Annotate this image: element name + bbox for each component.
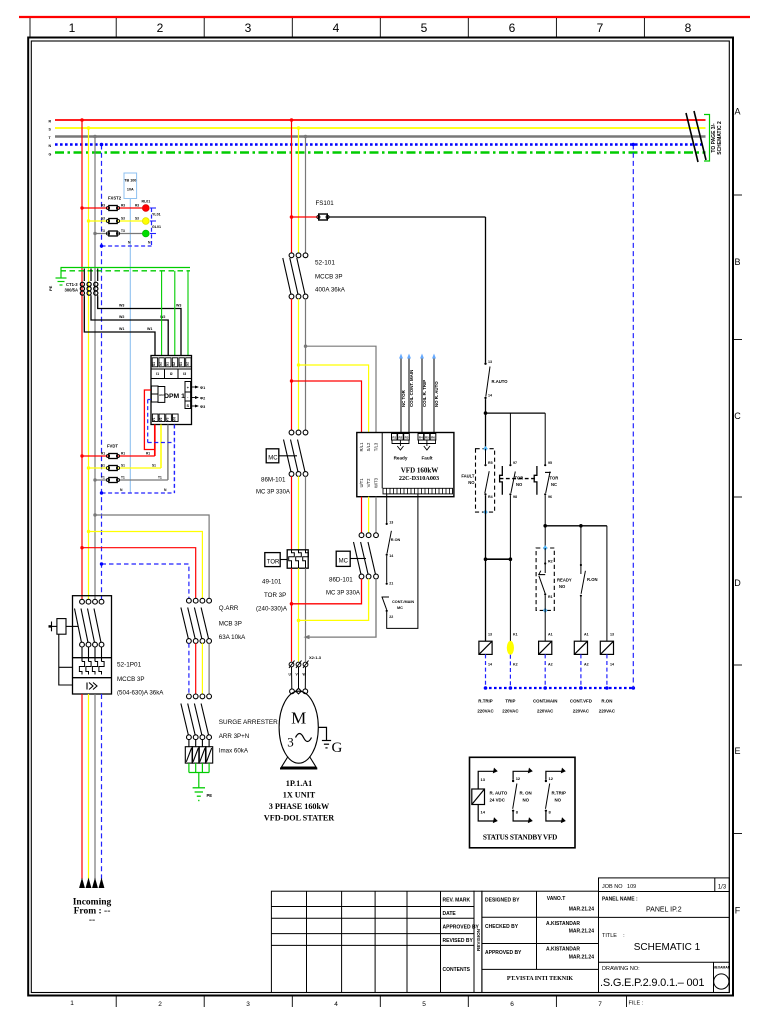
svg-text:Φ2: Φ2	[200, 397, 205, 401]
svg-text:2: 2	[157, 21, 164, 35]
svg-text:A.KISTANDAR: A.KISTANDAR	[546, 947, 580, 953]
svg-text:READY: READY	[557, 578, 572, 583]
contact TOR NO	[509, 413, 511, 464]
arrow W joins T phase	[304, 635, 310, 639]
coil R.ON	[600, 641, 613, 654]
contactor 86M-101 pole R	[284, 430, 294, 476]
svg-text:MC: MC	[268, 456, 278, 462]
svg-text:1P.1.A1: 1P.1.A1	[286, 779, 313, 788]
svg-text:S: S	[187, 404, 190, 408]
wire stub NO R. AUTO	[433, 357, 435, 434]
svg-text:S3: S3	[121, 217, 125, 221]
svg-text:R1: R1	[101, 452, 105, 456]
svg-text:R. ON: R. ON	[520, 791, 532, 796]
svg-text:R3: R3	[405, 436, 409, 440]
wire N to DPM VN (dashed blue)	[102, 400, 175, 494]
motor operator 52-1P01	[49, 619, 79, 685]
svg-text:S3: S3	[101, 217, 105, 221]
svg-text:CONT./MAIN: CONT./MAIN	[392, 600, 414, 604]
wire VFD output W (grey)	[375, 497, 377, 533]
svg-text:R.TRIP: R.TRIP	[478, 699, 492, 704]
svg-text:5: 5	[422, 1001, 426, 1008]
overload relay 49-101 body	[287, 550, 308, 568]
contactor 86D-101 pole U	[354, 533, 364, 579]
svg-text:13: 13	[488, 360, 492, 364]
wire T feeder-2 vertical	[305, 137, 307, 254]
svg-text:S2: S2	[172, 362, 176, 366]
wire W1 CT1 secondary	[84, 297, 155, 356]
svg-text:TOR: TOR	[550, 476, 559, 481]
svg-text:DRAWING NO:: DRAWING NO:	[602, 966, 640, 972]
svg-text:MC: MC	[397, 606, 403, 610]
wire W3 CT3 secondary	[98, 297, 181, 356]
wire R tee to VFD input R/L1	[292, 381, 362, 433]
svg-text:14: 14	[610, 663, 614, 667]
wire R tap to control fuse FS101	[292, 216, 319, 218]
svg-text:R2: R2	[548, 560, 553, 564]
svg-text:S1: S1	[101, 464, 105, 468]
svg-text:V3: V3	[166, 417, 170, 421]
svg-text:S2: S2	[186, 362, 190, 366]
CT2 current transformer	[87, 269, 91, 298]
bus R (red phase bus)	[55, 119, 706, 121]
wire R feeder-2 vertical (bus R to 52-101)	[291, 120, 293, 253]
wire N tee to Q.ARR (dashed blue)	[102, 564, 189, 599]
svg-text:220VAC: 220VAC	[502, 709, 519, 714]
svg-text:MAR.21.24: MAR.21.24	[569, 955, 595, 961]
svg-text:98: 98	[513, 495, 517, 499]
wire R tap to fuse FXST2-R	[82, 207, 142, 209]
svg-text:S2: S2	[159, 362, 163, 366]
bus G (green dash-dot ground bus)	[55, 151, 706, 154]
svg-text:W/T3: W/T3	[373, 477, 378, 488]
terminal block TB 100 10A	[124, 173, 137, 199]
junctions N rail	[484, 686, 488, 690]
CT3 current transformer	[94, 269, 98, 298]
svg-text:R.ON: R.ON	[601, 699, 612, 704]
wire T tee to VFD input T/L3	[306, 346, 377, 432]
wire TOR NC to header2	[544, 495, 546, 548]
wire FS101 to control circuit	[328, 216, 486, 218]
svg-text:NC: NC	[551, 482, 557, 487]
power meter DPM 1	[151, 356, 192, 425]
svg-text:AUX: AUX	[159, 393, 165, 397]
svg-text:T1: T1	[121, 476, 125, 480]
svg-text:B: B	[734, 257, 740, 267]
wire arrester earth bus (green)	[189, 763, 209, 787]
svg-text:6: 6	[509, 21, 516, 35]
svg-text:NO R. AUTO: NO R. AUTO	[434, 381, 439, 407]
wire PE to CT S2 terminals (green)	[162, 271, 188, 356]
svg-text:V1: V1	[152, 417, 156, 421]
svg-text:.S.G.E.P.2.9.0.1.– 001: .S.G.E.P.2.9.0.1.– 001	[600, 977, 704, 989]
switch surge arrester pole S	[194, 694, 204, 740]
mechanical link TOR (dashed)	[500, 478, 536, 480]
svg-text:86D-101: 86D-101	[329, 577, 353, 584]
wire S 49-101 to motor terminal	[298, 568, 300, 661]
contact READY NO (dashed box)	[536, 548, 554, 610]
svg-text:12: 12	[516, 776, 521, 781]
svg-text:FAULT: FAULT	[461, 474, 475, 479]
svg-text:S3: S3	[135, 217, 139, 221]
arrester element 4	[206, 739, 213, 763]
breaker Q.ARR pole R	[188, 598, 198, 643]
right info block	[599, 878, 730, 993]
motor M 3~	[279, 688, 318, 763]
breaker Q.ARR pole S	[194, 598, 204, 643]
svg-text:T3: T3	[101, 229, 105, 233]
svg-text:W1: W1	[147, 327, 152, 331]
svg-text:PT.VISTA INTI TEKNIK: PT.VISTA INTI TEKNIK	[507, 976, 574, 982]
wire TOR NO to rail1	[509, 495, 511, 641]
ground arrester PE	[193, 788, 205, 801]
signature table	[482, 891, 599, 992]
svg-text:W2: W2	[160, 315, 165, 319]
svg-text:R1: R1	[392, 436, 396, 440]
wire S tee to VFD input S/L2	[299, 365, 369, 433]
svg-text:R3: R3	[135, 204, 139, 208]
breaker 52-101 pole R	[283, 253, 294, 299]
breaker 52-1P01 trip units	[79, 662, 104, 675]
PE sub-bus (green)	[61, 267, 191, 269]
svg-text:PANEL NAME :: PANEL NAME :	[602, 897, 638, 903]
svg-text:REVISION: REVISION	[476, 928, 481, 951]
svg-text:T/L3: T/L3	[373, 442, 378, 451]
wire T 49-101 to motor terminal	[305, 568, 307, 661]
wire Q.ARR to surge arrester R	[195, 643, 197, 694]
svg-text:1: 1	[70, 1000, 74, 1007]
svg-text:63A 10kA: 63A 10kA	[219, 634, 246, 641]
pilot lamp RL01 (red)	[142, 205, 149, 212]
svg-text:D: D	[734, 578, 741, 588]
svg-text:13: 13	[610, 633, 614, 637]
svg-text:A.KISTANDAR: A.KISTANDAR	[546, 921, 580, 927]
svg-text:SURGE ARRESTER: SURGE ARRESTER	[219, 719, 278, 726]
svg-text:E: E	[734, 746, 740, 756]
DPM comm port boxes	[185, 382, 191, 409]
svg-text:W2: W2	[119, 315, 124, 319]
label motor description	[264, 779, 335, 823]
svg-text:FVDT: FVDT	[107, 444, 118, 449]
wire 86D U to R phase	[292, 579, 362, 604]
svg-text:R3: R3	[121, 204, 125, 208]
wire stub COIL R. TRIP	[421, 357, 423, 434]
coil captions	[477, 699, 615, 714]
contact R.TRIP NO (status)	[546, 771, 562, 821]
svg-text:SCHEMATIC 1: SCHEMATIC 1	[634, 942, 701, 953]
svg-text:TOR 3P: TOR 3P	[264, 592, 286, 599]
bus continuation slashes to page 3	[686, 113, 698, 162]
wire branch5 direct to coil R.ON	[606, 526, 608, 641]
status panel border	[470, 757, 576, 848]
wire N rail (dotted blue)	[484, 687, 633, 689]
revision labels	[443, 898, 480, 974]
svg-text:C: C	[734, 411, 741, 421]
breaker 52-1P01 magnetic element	[87, 683, 97, 690]
svg-text:7: 7	[597, 21, 604, 35]
svg-text:TITLE :: TITLE :	[602, 933, 625, 939]
wire T 52-101 to 86M-101	[305, 299, 307, 431]
svg-text:M: M	[291, 709, 306, 728]
DPM voltage terminals V1 V2 V3 VN	[152, 414, 178, 422]
svg-text:YL01: YL01	[152, 213, 161, 217]
svg-text:SCHEMATIC 2: SCHEMATIC 2	[717, 121, 723, 155]
coil box TOR of 49-101	[265, 553, 280, 567]
svg-text:S1: S1	[165, 362, 169, 366]
wire T feeder vertical	[94, 137, 96, 600]
svg-text:Ready: Ready	[394, 456, 408, 461]
bus N (blue dotted neutral bus)	[55, 143, 704, 146]
svg-text:21: 21	[389, 582, 393, 586]
svg-text:R2: R2	[398, 436, 402, 440]
svg-text:K2: K2	[513, 663, 518, 667]
wire S feeder vertical	[88, 128, 90, 600]
wire R 86M-101 to 49-101	[291, 476, 293, 550]
svg-text:FXST2: FXST2	[108, 196, 122, 201]
wire N drop from bus (dashed blue)	[632, 145, 634, 689]
breaker 52-1P01 pole T	[88, 599, 98, 661]
wire S feeder-2 vertical	[298, 128, 300, 253]
fuse FVDT-R	[109, 454, 117, 459]
contact R.ON (NO) branch4	[580, 526, 582, 574]
svg-text:13: 13	[481, 777, 486, 782]
breaker 52-1P01 pole R	[75, 599, 85, 661]
VFD control terminal strip	[383, 488, 453, 494]
svg-text:NO: NO	[516, 482, 523, 487]
breaker Q.ARR pole T	[201, 598, 211, 643]
svg-text:ARR 3P+N: ARR 3P+N	[219, 733, 249, 740]
svg-text:R4: R4	[488, 495, 493, 499]
svg-text:V2: V2	[159, 417, 163, 421]
wire Q.ARR to surge arrester N (dashed blue)	[188, 643, 190, 694]
svg-text:14: 14	[389, 554, 393, 558]
bracket to page 3	[704, 115, 710, 162]
svg-text:220VAC: 220VAC	[599, 709, 616, 714]
junction header2	[543, 524, 547, 528]
svg-text:12: 12	[549, 776, 554, 781]
DPM I1 I2 I3 cells	[151, 369, 192, 379]
svg-text:52-1P01: 52-1P01	[117, 662, 142, 669]
svg-text:49-101: 49-101	[262, 579, 282, 586]
wire S tee to Q.ARR (yellow)	[89, 532, 203, 599]
junction R from 86D-101	[290, 602, 294, 606]
svg-text:DATE: DATE	[443, 911, 457, 917]
wire R feeder vertical (bus R to 52-1P01)	[81, 120, 83, 600]
svg-text:REVISED BY: REVISED BY	[443, 938, 474, 944]
svg-text:U/T1: U/T1	[359, 478, 364, 488]
svg-text:220VAC: 220VAC	[477, 709, 494, 714]
wire stub NC TOR	[400, 357, 402, 434]
svg-text:NO: NO	[468, 480, 475, 485]
svg-text:I1: I1	[156, 372, 159, 376]
wire 86D W to T phase	[308, 579, 376, 637]
wire run loop return B	[387, 494, 418, 629]
svg-text:R: R	[49, 120, 52, 124]
wire R 52-101 to 86M-101	[291, 299, 293, 431]
svg-text:3: 3	[246, 1001, 250, 1008]
svg-text:REV. MARK: REV. MARK	[443, 898, 471, 904]
CONTROL	[292, 143, 636, 714]
fuse FXST2-S	[109, 219, 117, 224]
wire T tap to FVDT fuse and DPM V3	[95, 425, 168, 481]
svg-text:S1: S1	[121, 464, 125, 468]
LEFTFEED	[48, 118, 278, 925]
wire Q.ARR to surge arrester T	[208, 643, 210, 694]
coil box MC of 86D-101	[336, 551, 350, 566]
ground G at motor	[318, 727, 331, 748]
contact R.AUTO (NO)	[484, 363, 486, 365]
VFD U1 body	[357, 433, 454, 497]
svg-text:S1: S1	[152, 464, 156, 468]
wire S 52-101 to 86M-101	[298, 299, 300, 431]
junction control branch node	[484, 411, 488, 415]
svg-text:14: 14	[481, 810, 486, 815]
svg-text:NO: NO	[523, 798, 530, 803]
wire W2 CT2 secondary	[91, 297, 168, 356]
switch surge arrester pole T	[201, 694, 211, 740]
wire VFD output V (yellow)	[368, 497, 370, 533]
svg-text:1/3: 1/3	[718, 885, 727, 891]
svg-text:(240-330)A: (240-330)A	[256, 606, 288, 613]
svg-text:T3: T3	[121, 229, 125, 233]
motor pedestal	[280, 757, 317, 769]
arrester element 3	[199, 739, 206, 763]
junction bus N tap	[100, 143, 104, 147]
wire R tee to Q.ARR (red)	[82, 548, 196, 599]
svg-text:Q.ARR: Q.ARR	[219, 605, 239, 612]
svg-text:COIL CONT. MAIN: COIL CONT. MAIN	[409, 370, 414, 407]
BUSES	[49, 111, 724, 162]
wire Q.ARR to surge arrester S	[201, 643, 203, 694]
wire branch header	[486, 412, 546, 414]
svg-text:STATUS STANDBY VFD: STATUS STANDBY VFD	[483, 834, 557, 842]
svg-text:COIL R. TRIP: COIL R. TRIP	[422, 380, 427, 407]
svg-text:MC: MC	[339, 559, 349, 565]
svg-text:FS101: FS101	[316, 200, 335, 207]
lamp TRIP (yellow)	[507, 641, 514, 655]
DPM aux boxes	[151, 386, 165, 402]
svg-text:R.ON: R.ON	[391, 538, 401, 542]
svg-text:A2: A2	[548, 663, 553, 667]
svg-text:10A: 10A	[127, 188, 134, 192]
svg-text:CHECKED BY: CHECKED BY	[485, 924, 519, 930]
svg-text:2: 2	[158, 1001, 162, 1008]
wire S tap to FVDT fuse and DPM V2	[89, 425, 162, 469]
wire T tee to Q.ARR (grey)	[95, 515, 209, 599]
svg-text:22: 22	[389, 615, 393, 619]
svg-text:52-101: 52-101	[315, 260, 335, 267]
wire incoming R	[81, 694, 83, 879]
svg-text:3: 3	[245, 21, 252, 35]
svg-text:MAR.21.24: MAR.21.24	[569, 929, 595, 935]
svg-text:R4: R4	[419, 436, 423, 440]
wire coil returns to N rail (dashed blue)	[486, 654, 607, 688]
svg-text:R/L1: R/L1	[359, 442, 364, 452]
wire N feeder vertical (dashed)	[101, 145, 103, 600]
revision table	[271, 891, 474, 992]
svg-text:S/L2: S/L2	[366, 442, 371, 451]
svg-text:R5: R5	[425, 436, 429, 440]
svg-text:Fault: Fault	[422, 456, 433, 461]
wire R 49-101 to motor terminal	[291, 568, 293, 661]
pilot lamp GL01 (green)	[142, 230, 149, 237]
VFD Ready relay contact	[392, 440, 409, 450]
contact CONT./MAIN MC (NC) in run loop	[386, 583, 388, 585]
svg-text:MEXAMAN: MEXAMAN	[713, 966, 731, 970]
svg-text:CONTENTS: CONTENTS	[443, 967, 471, 973]
svg-text:400A 36kA: 400A 36kA	[315, 287, 346, 294]
VFD input terminal labels	[359, 442, 378, 488]
fuse FVDT-T	[109, 478, 117, 483]
arrester element 2	[192, 739, 199, 763]
svg-text:APPROVED BY: APPROVED BY	[443, 925, 480, 931]
svg-text:F: F	[735, 906, 741, 916]
wire R.AUTO to branch node	[485, 399, 487, 449]
svg-text:R1: R1	[121, 452, 125, 456]
wire to CONT.MAIN NC contact	[386, 556, 388, 583]
svg-text:R.TRIP: R.TRIP	[552, 791, 566, 796]
svg-text:W1: W1	[119, 327, 124, 331]
svg-text:R1: R1	[548, 595, 553, 599]
svg-text:CT1-3: CT1-3	[66, 282, 78, 287]
STATUSBOX	[470, 757, 576, 848]
switch surge arrester pole R	[188, 694, 198, 740]
svg-text:DESIGNED BY: DESIGNED BY	[485, 898, 520, 904]
svg-text:MC 3P 330A: MC 3P 330A	[326, 591, 360, 597]
svg-text:Φ1: Φ1	[200, 386, 205, 390]
wire T tap to fuse FXST2-T	[95, 233, 142, 235]
bus S (yellow phase bus)	[55, 127, 706, 129]
svg-text:VFD 160kW: VFD 160kW	[401, 467, 439, 475]
svg-text:CONT.VFD: CONT.VFD	[570, 699, 592, 704]
svg-text:8: 8	[685, 21, 692, 35]
ground PE electrode	[56, 268, 67, 286]
svg-text:A1: A1	[548, 633, 553, 637]
coil R.TRIP	[479, 641, 492, 654]
svg-text:R.AUTO: R.AUTO	[492, 379, 509, 384]
svg-text:PE: PE	[207, 793, 213, 798]
breaker 52-1P01 pole N	[94, 599, 104, 661]
svg-text:APPROVED BY: APPROVED BY	[485, 950, 522, 956]
pilot lamp YL01 (yellow)	[142, 218, 149, 225]
svg-text:22C-D310A003: 22C-D310A003	[399, 475, 439, 482]
svg-text:TOR: TOR	[267, 560, 280, 566]
svg-text:TRIP: TRIP	[505, 699, 515, 704]
svg-text:MCB 3P: MCB 3P	[219, 621, 242, 628]
breaker Q.ARR MCB 3P pole N	[181, 598, 191, 643]
svg-text:V/T2: V/T2	[366, 478, 371, 488]
svg-text:JOB NO 109: JOB NO 109	[602, 884, 636, 890]
svg-text:R1: R1	[146, 452, 150, 456]
coil box MC of 86M-101	[266, 449, 279, 463]
svg-text:I3: I3	[183, 372, 186, 376]
svg-text:W3: W3	[176, 304, 181, 308]
svg-text:T1: T1	[101, 476, 105, 480]
svg-text:FILE :: FILE :	[629, 1001, 644, 1007]
wire incoming N (dashed)	[101, 694, 103, 879]
arrester element 1	[185, 739, 192, 763]
svg-text:R.ON: R.ON	[587, 577, 597, 582]
svg-text:MCCB 3P: MCCB 3P	[315, 274, 343, 281]
svg-text:X2:1-3: X2:1-3	[309, 655, 322, 660]
svg-text:W3: W3	[119, 304, 124, 308]
svg-text:14: 14	[488, 663, 492, 667]
svg-text:CONT.MAIN: CONT.MAIN	[533, 699, 557, 704]
svg-text:PE: PE	[48, 285, 53, 291]
contact R.ON NO (status)	[513, 771, 528, 821]
svg-text:24 VDC: 24 VDC	[490, 798, 506, 803]
label TO PAGE 3 / SCHEMATIC 2	[711, 121, 723, 155]
